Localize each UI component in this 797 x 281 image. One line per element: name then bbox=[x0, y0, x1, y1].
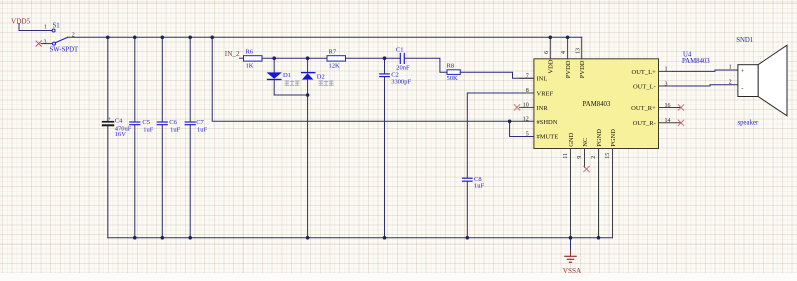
IC U4 PAM8403 body bbox=[534, 59, 659, 149]
pin 1 OUT_L+ bbox=[632, 67, 673, 76]
svg-text:2: 2 bbox=[729, 79, 732, 85]
no-ERC marker on pin 9 bbox=[584, 166, 590, 172]
svg-text:#SHDN: #SHDN bbox=[537, 119, 558, 126]
svg-text:speaker: speaker bbox=[738, 119, 759, 126]
svg-text:50K: 50K bbox=[447, 75, 459, 82]
no-ERC marker on pin 14 bbox=[678, 120, 684, 126]
svg-text:C5: C5 bbox=[142, 119, 150, 126]
ground symbol VSSA bbox=[563, 238, 582, 275]
svg-text:OUT_L+: OUT_L+ bbox=[632, 69, 657, 76]
svg-text:1uF: 1uF bbox=[474, 182, 485, 189]
pin 6 VDD (top) bbox=[544, 37, 555, 73]
svg-text:+: + bbox=[741, 68, 745, 75]
speaker SND1 bbox=[729, 37, 787, 127]
svg-text:R6: R6 bbox=[246, 49, 254, 56]
svg-text:VREF: VREF bbox=[537, 90, 554, 97]
pin 13 PVDD (top) bbox=[575, 37, 586, 78]
svg-text:PGND: PGND bbox=[596, 129, 603, 147]
svg-text:OUT_R+: OUT_R+ bbox=[631, 105, 656, 112]
svg-text:8: 8 bbox=[526, 88, 529, 94]
svg-text:PGND: PGND bbox=[610, 129, 617, 147]
svg-text:1: 1 bbox=[44, 24, 47, 30]
no-ERC marker on S1 pin 3 bbox=[36, 41, 41, 46]
power port VDD5 bbox=[11, 17, 31, 25]
svg-text:C1: C1 bbox=[396, 46, 404, 53]
pin 2 PGND (bottom) bbox=[591, 129, 603, 238]
wire R7 to C1 bbox=[346, 57, 400, 59]
pin 9 NC (bottom) bbox=[577, 138, 589, 168]
pin 16 OUT_R+ bbox=[631, 103, 681, 112]
resistor R6 1K bbox=[244, 49, 263, 70]
svg-text:PVDD: PVDD bbox=[565, 60, 572, 78]
pin 3 OUT_L- bbox=[633, 81, 672, 90]
pin 11 GND (bottom) bbox=[563, 132, 575, 237]
svg-text:R7: R7 bbox=[329, 49, 337, 56]
capacitor C5 1uF bbox=[130, 37, 154, 237]
wire VREF (pin 8) to C8 bbox=[467, 93, 534, 178]
wire OUT_L+ to speaker pin 1 bbox=[672, 70, 738, 71]
switch S1 SW-SPDT bbox=[41, 23, 79, 54]
capacitor C4 470uF 16V (electrolytic) bbox=[102, 37, 132, 237]
junction dots on VDD rail bbox=[106, 36, 569, 40]
capacitor C6 1uF bbox=[157, 37, 180, 237]
pin 8 VREF bbox=[520, 88, 554, 97]
svg-text:VDD: VDD bbox=[548, 59, 555, 73]
svg-text:1: 1 bbox=[665, 67, 668, 73]
svg-text:#MUTE: #MUTE bbox=[537, 133, 559, 140]
capacitor C8 1uF bbox=[463, 176, 485, 238]
svg-text:GND: GND bbox=[568, 132, 575, 146]
svg-text:6: 6 bbox=[544, 51, 550, 54]
svg-text:VSSA: VSSA bbox=[563, 267, 582, 275]
svg-text:7: 7 bbox=[526, 74, 529, 80]
wire IN_2 to R6 bbox=[240, 57, 244, 59]
pin 12 #SHDN bbox=[523, 117, 558, 126]
svg-text:12K: 12K bbox=[329, 63, 341, 70]
junction dots on ground rail bbox=[133, 236, 600, 240]
svg-text:-: - bbox=[741, 85, 743, 92]
wire #SHDN to #MUTE (pin 5) bbox=[510, 121, 534, 136]
comment text (diode) for D1 bbox=[285, 81, 299, 85]
svg-text:INL: INL bbox=[537, 76, 548, 83]
wire OUT_L- to speaker pin 2 bbox=[672, 85, 738, 86]
svg-text:PVDD: PVDD bbox=[579, 60, 586, 78]
svg-text:R8: R8 bbox=[447, 63, 455, 70]
svg-text:OUT_L-: OUT_L- bbox=[633, 83, 656, 90]
svg-text:1uF: 1uF bbox=[170, 126, 181, 133]
svg-text:14: 14 bbox=[665, 118, 671, 124]
svg-text:D1: D1 bbox=[283, 72, 291, 79]
capacitor C2 3300pF bbox=[380, 58, 412, 238]
pin 4 PVDD (top) bbox=[561, 37, 572, 78]
svg-text:SND1: SND1 bbox=[736, 37, 753, 44]
diode D1 bbox=[267, 58, 291, 95]
svg-text:PAM8403: PAM8403 bbox=[583, 101, 611, 108]
svg-text:1: 1 bbox=[729, 65, 732, 71]
wire VDD rail to #SHDN (pin 12) bbox=[212, 37, 534, 121]
svg-text:16V: 16V bbox=[115, 131, 127, 138]
svg-text:3300pF: 3300pF bbox=[391, 78, 411, 85]
capacitor C7 1uF bbox=[185, 37, 207, 237]
svg-text:15: 15 bbox=[605, 153, 611, 159]
svg-text:3: 3 bbox=[44, 40, 47, 46]
svg-text:INR: INR bbox=[537, 105, 549, 112]
svg-text:1K: 1K bbox=[246, 63, 254, 70]
svg-text:C7: C7 bbox=[196, 119, 204, 126]
no-ERC marker on pin 16 bbox=[678, 105, 684, 111]
svg-text:11: 11 bbox=[563, 153, 569, 159]
designator U4 PAM8403 bbox=[682, 51, 710, 65]
svg-text:VDD5: VDD5 bbox=[11, 17, 31, 25]
pin 10 INR bbox=[520, 103, 549, 112]
svg-text:20nF: 20nF bbox=[396, 65, 410, 72]
resistor R8 50K bbox=[447, 63, 461, 82]
wire R6 to R7 bbox=[262, 57, 327, 59]
svg-text:16: 16 bbox=[665, 103, 671, 109]
pin 5 #MUTE bbox=[526, 131, 558, 140]
svg-text:IN_2: IN_2 bbox=[225, 50, 240, 58]
svg-text:SW-SPDT: SW-SPDT bbox=[50, 47, 80, 54]
svg-text:NC: NC bbox=[582, 138, 589, 147]
svg-text:D2: D2 bbox=[317, 73, 325, 80]
svg-text:OUT_R-: OUT_R- bbox=[633, 120, 656, 127]
diode D2 bbox=[302, 58, 325, 238]
pin 7 INL bbox=[520, 74, 548, 83]
wire R8 to INL (pin 7) bbox=[460, 72, 534, 78]
pin 15 PGND (bottom) bbox=[605, 129, 617, 238]
capacitor C1 20nF (series) bbox=[396, 46, 410, 71]
svg-text:4: 4 bbox=[561, 51, 567, 54]
no-ERC marker on pin 10 bbox=[514, 105, 520, 111]
resistor R7 12K bbox=[327, 49, 346, 70]
svg-text:1uF: 1uF bbox=[197, 126, 208, 133]
svg-text:12: 12 bbox=[523, 117, 529, 123]
svg-text:1uF: 1uF bbox=[143, 126, 154, 133]
svg-text:2: 2 bbox=[591, 156, 597, 159]
svg-text:10: 10 bbox=[523, 103, 529, 109]
wire C1 to R8 bbox=[405, 58, 447, 72]
svg-text:5: 5 bbox=[526, 131, 529, 137]
wire VDD5 to switch pin 1 bbox=[19, 24, 52, 31]
svg-text:9: 9 bbox=[577, 156, 583, 159]
pin 14 OUT_R- bbox=[633, 118, 681, 127]
junction dot on #SHDN/#MUTE net bbox=[508, 120, 512, 124]
wire D1 cathode to D2 column bbox=[274, 94, 307, 96]
svg-text:13: 13 bbox=[575, 48, 581, 54]
svg-text:PAM8403: PAM8403 bbox=[682, 58, 710, 65]
svg-text:C4: C4 bbox=[115, 118, 123, 125]
svg-text:C6: C6 bbox=[169, 119, 177, 126]
comment text (diode) for D2 bbox=[319, 81, 333, 85]
svg-text:3: 3 bbox=[665, 81, 668, 87]
wire main VDD power rail bbox=[68, 36, 582, 38]
wire bottom ground rail bbox=[108, 237, 613, 239]
junction dots on input signal net bbox=[272, 56, 386, 96]
